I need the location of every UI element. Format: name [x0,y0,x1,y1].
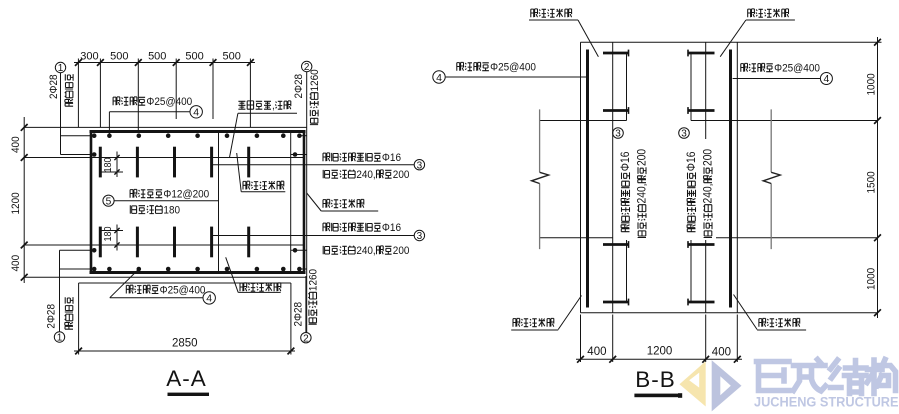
svg-text:2Φ28: 2Φ28 [293,74,305,99]
svg-text:4: 4 [193,107,199,119]
A-A inner line near right edge [290,132,292,273]
A-A label 2phi28 through bars top-left [48,74,60,99]
A-A bottom rebar dots row (no.4 bars) [92,267,97,272]
svg-text:500: 500 [148,51,166,63]
svg-text:180: 180 [103,226,114,241]
svg-text:B-B: B-B [635,367,676,392]
B-B label anchor bars right group (no.3) [681,139,716,240]
A-A top rebar dots row (no.4 bars) [92,133,97,138]
B-B bottom dimension 400/1200/400 [576,358,742,360]
logo icon right white cutout [720,376,731,395]
B-B anchor ties left (no.3) [603,52,629,55]
svg-text:200: 200 [393,169,410,181]
svg-text:3: 3 [417,160,423,171]
A-A through-bar stubs top-right [301,135,307,137]
svg-text:180: 180 [163,204,180,216]
A-A slab rectangle bottom edge [90,271,306,274]
svg-text:Φ16: Φ16 [685,152,698,172]
svg-text:3: 3 [417,231,423,242]
B-B left wall inner face [612,42,614,313]
B-B existing slab bottom line right + extension [706,237,878,239]
svg-text:A-A: A-A [166,366,207,391]
B-B existing slab grey edge left with break [539,109,541,249]
svg-text:1200: 1200 [647,346,673,358]
B-B anchor tie plane line left top box [626,53,628,111]
logo icon left white cutout [689,373,699,388]
B-B label new bars right (no.4) [741,63,748,71]
svg-text:1200: 1200 [10,192,22,214]
svg-text:4: 4 [823,73,829,85]
svg-text:Φ16: Φ16 [619,152,632,172]
A-A label 2phi28 anchor bottom-right [293,302,305,327]
svg-text:2850: 2850 [172,338,198,350]
A-A callout circle 2 top-right [302,61,312,71]
A-A label new grout inside top [243,181,250,189]
B-B existing slab top line right + extension [691,120,878,122]
svg-text:1000: 1000 [865,73,877,95]
A-A left dimension texts [10,136,22,153]
svg-text:240,: 240, [356,245,375,257]
svg-text:2: 2 [303,333,309,344]
svg-text:240,: 240, [356,169,375,181]
B-B label new bars left (no.4) [457,62,464,70]
A-A second-row edge dots [92,152,97,157]
A-A label new grout right outside [323,199,330,207]
A-A outer top line of existing member [24,126,307,128]
B-B label new grout bottom-left [513,318,520,326]
B-B existing slab grey edge right with break [770,109,772,249]
A-A top dimension extension lines [77,59,79,128]
A-A interface line upper (400 level) [24,157,304,159]
A-A label new bars top (no.4) [113,97,120,105]
A-A bottom band stirrups (no.5) [99,227,102,258]
svg-text:200: 200 [393,245,410,257]
B-B existing slab bottom line left [540,237,613,239]
B-B bottom edge with extension to dim [581,312,878,314]
A-A top dimension line 300/500x4 [74,62,255,64]
svg-text:Φ25@400: Φ25@400 [490,61,536,73]
svg-text:JUCHENG STRUCTURE: JUCHENG STRUCTURE [754,395,899,410]
svg-text:Φ25@400: Φ25@400 [774,62,820,74]
svg-text:Φ16: Φ16 [382,152,401,164]
svg-text:500: 500 [110,51,128,63]
A-A label new grout inside bottom [240,283,247,291]
A-A left dimension line 400/1200/400 [23,117,25,283]
B-B anchor tie plane line right top box [690,53,692,111]
A-A vertical joint line between old and new pour [218,132,220,273]
svg-text:Φ25@400: Φ25@400 [160,284,206,296]
B-B anchor tie plane line right bottom box [690,245,692,303]
svg-text:1: 1 [58,63,64,74]
A-A right outer thin line / rebar no.2 leader [306,72,308,333]
A-A slab rectangle left edge [90,132,93,273]
B-B right dimension 1000/1500/1000 [877,37,879,318]
B-B label new grout top-right [748,9,755,17]
B-B label new grout bottom-right [759,318,766,326]
A-A through-bar stubs bottom-right [291,249,307,251]
A-A label new bars bottom (no.4) [126,285,133,293]
svg-text:240,: 240, [636,183,649,203]
A-A top band stirrups (no.5) [99,147,102,178]
A-A label 2phi28 through bars bottom-left [46,304,58,329]
svg-text:2Φ28: 2Φ28 [293,302,305,327]
logo icon right blue arrow [712,360,742,411]
A-A 180 depth dimension bottom [116,225,118,251]
small black mark near logo [678,393,682,398]
svg-text:2Φ28: 2Φ28 [46,304,58,329]
svg-text:400: 400 [10,255,22,272]
svg-text:3: 3 [681,129,687,140]
A-A through-bar stubs top-left [61,135,93,137]
B-B existing slab top line left [540,120,627,122]
svg-text:400: 400 [712,347,731,359]
svg-text:Φ16: Φ16 [382,222,401,234]
A-A outer bottom line of existing member [24,276,307,278]
svg-text:400: 400 [587,346,606,358]
B-B right new vertical rebar [729,50,732,308]
A-A bottom dimension line 2850 [74,350,295,352]
A-A slab rectangle top edge [90,130,306,133]
logo text JUCHENG (Chinese) [757,360,896,394]
svg-text:500: 500 [223,51,241,63]
svg-text:,: , [272,100,275,112]
svg-text:5: 5 [106,196,112,207]
svg-text:500: 500 [185,51,203,63]
B-B right wall inner face [705,42,707,313]
B-B anchor tie plane line left bottom box [626,245,628,303]
A-A callout circle 1 top-left [55,62,65,72]
A-A slab rectangle right edge [303,132,306,273]
A-A callout circle 2 bottom-right [301,333,311,343]
logo icon left yellow arrow [680,361,706,406]
B-B top edge with extension to dim [581,41,882,43]
svg-text:1500: 1500 [865,171,877,193]
svg-text:Φ12@200: Φ12@200 [163,188,209,200]
svg-text:2Φ28: 2Φ28 [48,74,60,99]
svg-text:180: 180 [103,157,114,172]
B-B left wall outer edge [580,42,582,313]
A-A label anchor bars right top (no.3) [323,153,330,161]
svg-text:1000: 1000 [865,268,877,290]
A-A label 2phi28 anchor top-right [293,74,305,99]
svg-text:1: 1 [57,333,63,344]
svg-text:4: 4 [206,293,212,305]
svg-text:Φ25@400: Φ25@400 [146,96,192,108]
A-A label stirrup no.5 [130,189,137,197]
svg-text:1260: 1260 [309,69,321,91]
svg-text:400: 400 [10,136,22,153]
A-A callout circle 1 bottom-left [54,332,64,342]
svg-text:300: 300 [80,51,98,63]
A-A lower auxiliary line [79,282,291,284]
svg-text:3: 3 [615,129,621,140]
B-B anchor ties right (no.3) [688,52,715,55]
svg-text:240,: 240, [702,183,715,203]
B-B left new vertical rebar [586,50,589,308]
A-A through-bar stubs bottom-left [60,249,95,251]
A-A label anchor bars right bottom (no.3) [323,223,330,231]
svg-text:1260: 1260 [307,269,319,291]
B-B label anchor bars left group (no.3) [615,139,649,240]
svg-text:4: 4 [436,72,442,84]
svg-text:200: 200 [702,148,715,166]
svg-text:200: 200 [636,148,649,166]
A-A label surface roughen [238,101,245,109]
A-A interface line lower [24,244,304,246]
B-B label new grout top-left [531,9,538,17]
B-B right wall outer edge [736,42,738,313]
A-A 180 depth dimension top [116,152,118,178]
